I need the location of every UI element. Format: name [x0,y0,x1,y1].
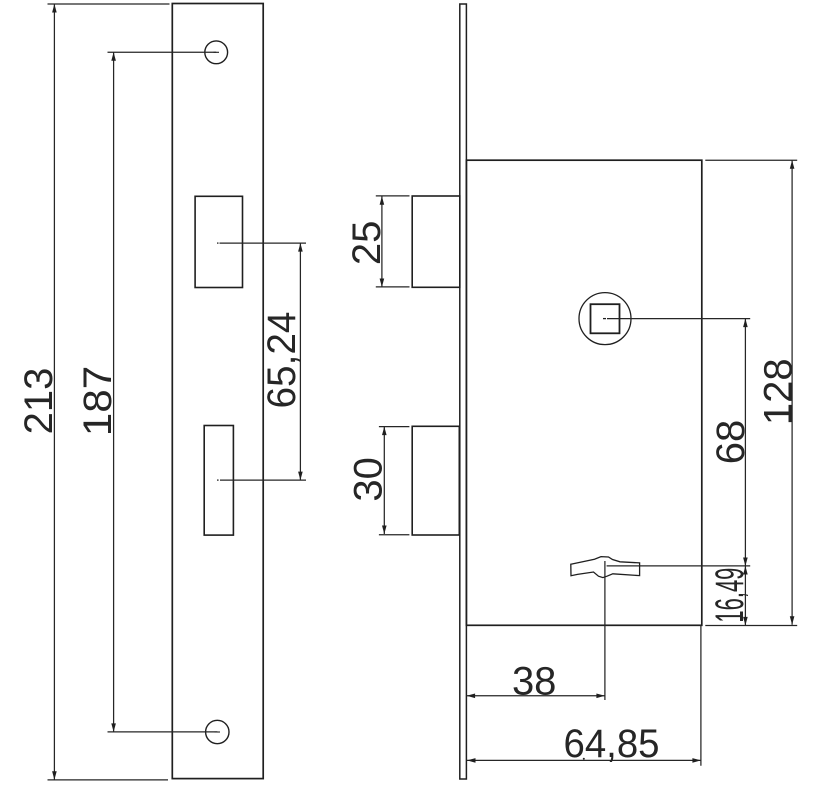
dimension 128 top arrow [790,160,795,169]
dimension 187 line [113,52,115,732]
latch side view [412,196,460,287]
dimension 38 line [467,695,605,697]
svg-text:25: 25 [345,221,389,266]
dimension 128 line [791,160,793,625]
dimension 213 line [53,4,55,780]
dimension 128 bottom arrow [790,616,795,625]
dimension 68 line [744,319,746,566]
dimension 30 top extension [379,426,410,428]
faceplate side view bar [460,4,467,779]
lock body [466,160,701,625]
svg-text:30: 30 [347,457,391,502]
deadbolt slot front view [204,426,233,536]
spindle hole circle [579,293,631,345]
key bit [571,557,640,578]
dimension 68 bottom arrow [743,558,748,567]
latch slot front view [195,196,242,287]
dimension 25 line [381,196,383,287]
svg-text:128: 128 [757,358,801,425]
dimension 30 line [383,427,385,534]
dimension 213 bottom arrow [52,771,57,780]
latch center dot [217,242,219,244]
dimension 25 top arrow [380,196,385,205]
dimension 25 bottom extension [376,286,410,288]
dimension 38 left arrow [467,694,476,699]
dimension 30 bottom extension [379,534,410,536]
dimension 213 top extension line [48,3,170,5]
dimension 68 top arrow [743,319,748,328]
svg-text:16,49: 16,49 [708,568,752,623]
svg-text:65,24: 65,24 [260,312,304,409]
dimension 65,24 line [299,243,301,480]
key center vertical extension [604,561,606,700]
dimension 187 bottom leader to screw center [108,731,218,733]
dimension 30 bottom arrow [382,526,387,535]
dimension 16,49 bottom arrow [743,617,748,626]
key center leader [607,565,751,567]
bolt center leader [220,479,306,481]
spindle center dot [603,318,606,320]
dimension 187 top leader to screw center [108,51,217,53]
dimension 38 right arrow [596,694,605,699]
dimension 64,85 right arrow [692,758,701,763]
dimension 128 top extension [705,159,797,161]
svg-text:213: 213 [17,368,61,435]
dimension 213 top arrow [52,4,57,13]
dimension 64,85 left arrow [467,758,476,763]
top screw hole [205,41,228,64]
deadbolt side view [412,426,459,535]
dimension 16,49 line [744,566,746,625]
svg-text:68: 68 [709,420,753,465]
dimension 30 top arrow [382,427,387,436]
dimension 65,24 top arrow [298,243,303,252]
top screw hole center mark [214,51,220,53]
svg-text:64,85: 64,85 [564,722,660,766]
svg-text:38: 38 [512,659,557,703]
dimension 64,85 line [467,759,701,761]
latch center leader [220,242,307,244]
dimension 65,24 bottom arrow [298,472,303,481]
bottom screw hole center mark [215,731,221,733]
small dot on 64,85 line [583,758,585,760]
dimension 128 bottom extension [705,625,797,627]
dimension 187 top arrow [111,52,116,61]
dimension 25 top extension [376,195,410,197]
body right edge extension down [700,625,702,766]
spindle square [591,304,620,333]
bolt center dot [217,479,219,481]
dimension 187 bottom arrow [111,723,116,732]
bottom screw hole [206,720,229,743]
dimension 25 bottom arrow [380,279,385,288]
dimension 16,49 top arrow [743,566,748,575]
svg-text:187: 187 [76,366,120,437]
spindle leader [607,318,750,320]
dimension 213 bottom extension line [48,779,169,781]
faceplate front view [172,4,263,779]
